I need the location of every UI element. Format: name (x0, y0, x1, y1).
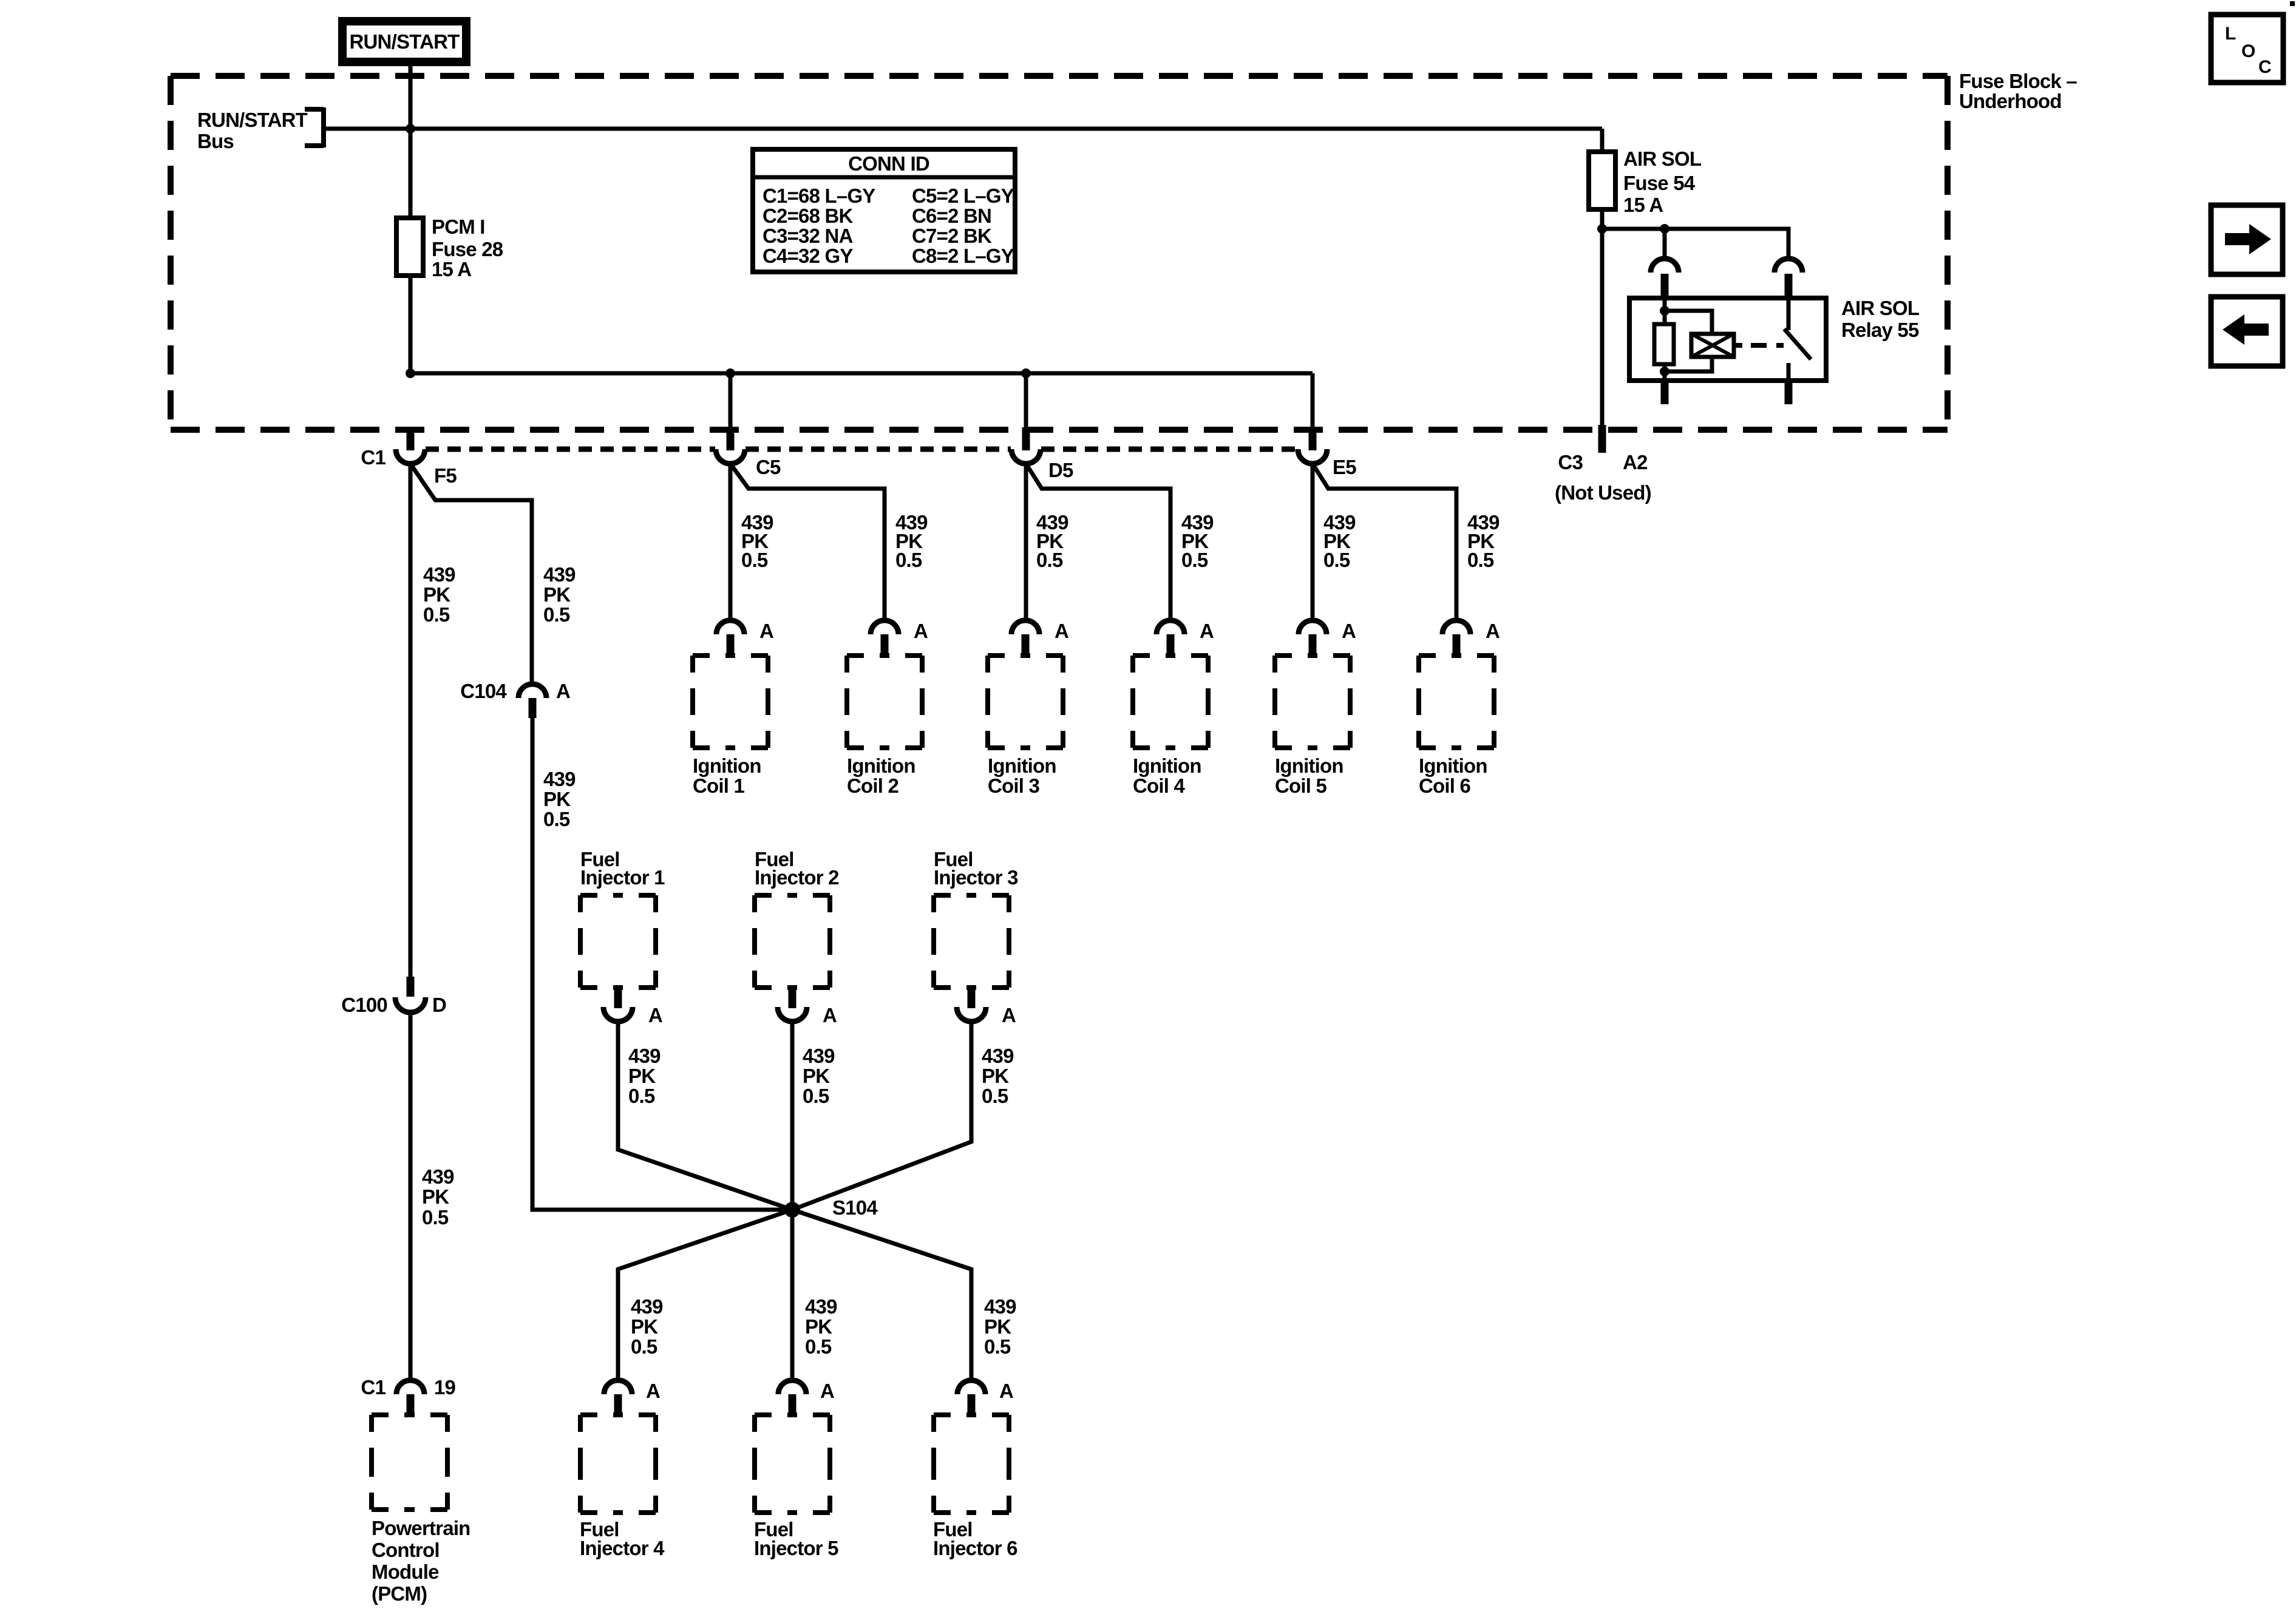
wire RUN/START bus horizontal (324, 127, 1602, 131)
svg-text:Coil 3: Coil 3 (988, 775, 1039, 797)
wire 439 PK 0.5 label (fuel injector 2) (803, 1045, 835, 1107)
connector C100 D (395, 977, 426, 1012)
svg-text:0.5: 0.5 (805, 1335, 832, 1358)
svg-text:Coil 2: Coil 2 (847, 775, 898, 797)
svg-text:Injector 4: Injector 4 (580, 1537, 665, 1559)
junction relay internal bottom (1660, 367, 1669, 376)
svg-text:0.5: 0.5 (982, 1085, 1008, 1107)
label Fuel Injector 5 (754, 1518, 838, 1559)
label C104 pin A (556, 680, 570, 702)
svg-text:A: A (759, 620, 773, 642)
wire 439 PK 0.5 label (C1 lower) (422, 1165, 454, 1229)
wire 439 PK 0.5 label (fuel injector 1) (628, 1045, 661, 1107)
svg-text:A: A (820, 1380, 834, 1402)
svg-text:439: 439 (631, 1295, 663, 1318)
fuel injector 6 box (934, 1415, 1009, 1513)
ignition coil 3 box (988, 656, 1063, 748)
svg-text:A: A (1055, 620, 1068, 642)
label ignition coil 4 pin A (1200, 620, 1214, 642)
label ignition coil 5 pin A (1342, 620, 1356, 642)
svg-text:439: 439 (805, 1295, 837, 1318)
connector D5 (1011, 427, 1041, 464)
module PCM box (372, 1415, 447, 1510)
connector relay pin left (1651, 259, 1679, 298)
svg-text:PK: PK (631, 1315, 658, 1338)
label Ignition Coil 6 (1419, 754, 1487, 797)
svg-text:Injector 1: Injector 1 (580, 866, 665, 889)
wire D5 branch to ignition coil 4 (1026, 464, 1170, 620)
label PCM I Fuse 28 15 A (432, 215, 503, 280)
splice S104 (784, 1202, 800, 1218)
label Fuel Injector 6 (933, 1518, 1017, 1559)
fuel injector 2 box (755, 895, 830, 988)
svg-text:Powertrain: Powertrain (372, 1517, 470, 1539)
junction relay internal top (1660, 306, 1669, 316)
label AIR SOL Relay 55 (1841, 297, 1920, 341)
label fuel injector 5 pin A (820, 1380, 834, 1402)
svg-text:PK: PK (982, 1065, 1009, 1087)
label Fuel Injector 1 (580, 848, 665, 889)
svg-text:439: 439 (803, 1045, 835, 1067)
svg-text:Coil 1: Coil 1 (693, 775, 744, 797)
svg-text:PK: PK (543, 583, 571, 606)
connector C104 A (518, 684, 546, 718)
svg-text:0.5: 0.5 (1323, 549, 1350, 571)
wire E5 to ignition coil 5 (1311, 464, 1315, 620)
wire relay pin left output stub (1661, 383, 1669, 404)
connector fuel injector 5 pin A (778, 1380, 806, 1415)
svg-text:O: O (2241, 41, 2255, 61)
svg-text:D: D (432, 994, 446, 1016)
svg-text:0.5: 0.5 (984, 1335, 1011, 1358)
svg-text:A: A (914, 620, 928, 642)
svg-text:PK: PK (543, 788, 571, 810)
svg-text:C1: C1 (361, 446, 385, 469)
node RUN/START Bus bracket (305, 107, 324, 147)
wire relay coil feed drop (1663, 229, 1667, 259)
label Fuel Injector 4 (580, 1518, 665, 1559)
wire E5 drop (1311, 373, 1315, 432)
wire 439 PK 0.5 label (ignition coil 3) (1036, 511, 1068, 571)
label C100 pin D (432, 994, 446, 1016)
svg-text:0.5: 0.5 (543, 808, 570, 830)
label fuel injector 4 pin A (646, 1380, 660, 1402)
svg-text:AIR SOL: AIR SOL (1623, 147, 1702, 170)
power feed box RUN/START (342, 21, 466, 62)
svg-text:PK: PK (803, 1065, 830, 1087)
connector C5 (716, 427, 745, 464)
svg-text:0.5: 0.5 (628, 1085, 655, 1107)
wire 439 PK 0.5 label (ignition coil 1) (741, 511, 773, 571)
junction RUN/START bus at PCM I fuse (406, 124, 415, 134)
label C1 (connector) (361, 446, 385, 469)
svg-text:AIR SOL: AIR SOL (1841, 297, 1920, 319)
wire 439 PK 0.5 label (ignition coil 4) (1181, 511, 1214, 571)
svg-text:Relay 55: Relay 55 (1841, 319, 1919, 341)
label Ignition Coil 5 (1275, 754, 1343, 797)
svg-text:L: L (2225, 24, 2236, 44)
connector C1 F5 (396, 427, 425, 464)
connector fuel injector 2 pin A (778, 988, 807, 1022)
junction ignition bus C5 (725, 368, 735, 378)
wire 439 PK 0.5 label (C104 lower) (543, 768, 576, 830)
wire ignition feed bus (410, 371, 1313, 376)
fuel injector 1 box (580, 895, 656, 988)
resistor relay internal (1654, 324, 1674, 364)
svg-text:439: 439 (628, 1045, 661, 1067)
connector ignition coil 5 pin A (1299, 620, 1326, 656)
label A2 (1623, 451, 1648, 473)
connector E5 (1298, 427, 1327, 464)
svg-text:C6=2 BN: C6=2 BN (912, 205, 991, 227)
connector fuel injector 6 pin A (957, 1380, 985, 1415)
wire S104 to fuel injector 4 (618, 1210, 792, 1380)
label Ignition Coil 4 (1133, 754, 1201, 797)
svg-text:0.5: 0.5 (1036, 549, 1063, 571)
connector fuel injector 1 pin A (603, 988, 633, 1022)
wire RUN/START feed vertical (409, 62, 413, 129)
ignition coil 6 box (1419, 656, 1494, 748)
svg-text:Ignition: Ignition (988, 754, 1056, 777)
wire C5 drop (729, 373, 733, 432)
label Ignition Coil 3 (988, 754, 1056, 797)
connector relay pin right (1775, 259, 1802, 298)
connector ignition coil 2 pin A (871, 620, 898, 656)
wire relay feed horizontal (1602, 229, 1788, 259)
svg-text:A: A (1002, 1004, 1016, 1026)
connector ignition coil 1 pin A (716, 620, 744, 656)
wire C5 branch to ignition coil 2 (730, 464, 885, 620)
label fuel injector 6 pin A (999, 1380, 1013, 1402)
svg-text:A2: A2 (1623, 451, 1648, 473)
label E5 (connector) (1333, 456, 1356, 478)
wire C1 branch to C104 (410, 464, 532, 684)
svg-text:Ignition: Ignition (1419, 754, 1487, 777)
icon LOC box (2211, 15, 2283, 83)
label ignition coil 6 pin A (1486, 620, 1500, 642)
svg-text:C3: C3 (1558, 451, 1583, 473)
connector ignition coil 6 pin A (1442, 620, 1470, 656)
ignition coil 4 box (1133, 656, 1208, 748)
label Ignition Coil 1 (693, 754, 761, 797)
svg-text:A: A (1200, 620, 1214, 642)
wire D5 drop (1024, 373, 1028, 432)
label (Not Used) (1555, 481, 1651, 504)
wire relay pin right output stub (1785, 383, 1793, 404)
scan artifact corner mark (2290, 1, 2295, 6)
wire 439 PK 0.5 label (fuel injector 6) (984, 1295, 1016, 1358)
svg-text:A: A (823, 1004, 837, 1026)
svg-text:C1=68 L–GY: C1=68 L–GY (763, 185, 875, 207)
svg-text:PK: PK (422, 1185, 449, 1208)
svg-text:Fuse 54: Fuse 54 (1623, 172, 1696, 194)
svg-text:439: 439 (423, 563, 455, 586)
wire relay internal resistor bottom (1663, 364, 1667, 381)
svg-text:439: 439 (543, 768, 576, 790)
wire relay internal pin left (1663, 298, 1667, 324)
ignition coil 1 box (693, 656, 768, 748)
pin C3 A2 connector stub (1598, 425, 1606, 453)
icon arrow previous page (2211, 297, 2283, 366)
svg-text:Injector 5: Injector 5 (754, 1537, 838, 1559)
svg-text:Coil 6: Coil 6 (1419, 775, 1470, 797)
ignition coil 2 box (847, 656, 922, 748)
svg-text:0.5: 0.5 (422, 1206, 449, 1229)
connector PCM C1 pin 19 (396, 1380, 424, 1415)
svg-text:439: 439 (422, 1165, 454, 1188)
harness dotted line (426, 447, 1297, 452)
svg-text:C100: C100 (341, 994, 387, 1016)
svg-text:A: A (1486, 620, 1500, 642)
svg-text:C2=68 BK: C2=68 BK (763, 205, 854, 227)
fuse AIR SOL Fuse 54 (1589, 129, 1615, 428)
fuel injector 4 box (580, 1415, 656, 1513)
svg-text:PK: PK (423, 583, 450, 606)
wire 439 PK 0.5 label (ignition coil 2) (895, 511, 928, 571)
relay AIR SOL Relay 55 box (1629, 298, 1826, 381)
svg-text:A: A (999, 1380, 1013, 1402)
svg-text:(PCM): (PCM) (372, 1582, 427, 1605)
svg-text:Injector 3: Injector 3 (934, 866, 1018, 889)
label C5 (connector) (756, 456, 781, 478)
svg-text:C7=2 BK: C7=2 BK (912, 225, 992, 247)
svg-text:Module: Module (372, 1561, 439, 1583)
wire relay coil loop (1665, 311, 1712, 371)
wire fuel injector 3 to S104 (792, 1022, 971, 1210)
label Ignition Coil 2 (847, 754, 915, 797)
label C3 (1558, 451, 1583, 473)
svg-text:S104: S104 (832, 1196, 878, 1219)
label PCM connector C1 (361, 1376, 385, 1398)
svg-text:Bus: Bus (197, 130, 234, 152)
label ignition coil 2 pin A (914, 620, 928, 642)
label fuel injector 3 pin A (1002, 1004, 1016, 1026)
wire 439 PK 0.5 label (ignition coil 5) (1323, 511, 1356, 571)
connector fuel injector 3 pin A (957, 988, 986, 1022)
wire fuel injector 2 to S104 (790, 1022, 795, 1210)
junction ignition bus D5 (1021, 368, 1031, 378)
junction ignition bus C1 (406, 368, 415, 378)
wire C104 to S104 splice (532, 718, 792, 1210)
svg-text:19: 19 (434, 1376, 456, 1398)
wire S104 to fuel injector 6 (792, 1210, 971, 1380)
svg-text:RUN/START: RUN/START (197, 109, 308, 131)
svg-text:Underhood: Underhood (1959, 90, 2062, 112)
svg-text:Ignition: Ignition (847, 754, 915, 777)
svg-text:0.5: 0.5 (423, 603, 450, 626)
label F5 (434, 464, 457, 487)
connector ignition coil 3 pin A (1011, 620, 1039, 656)
svg-text:D5: D5 (1048, 459, 1073, 481)
wire 439 PK 0.5 label (fuel injector 4) (631, 1295, 663, 1358)
label S104 (832, 1196, 878, 1219)
wire 439 PK 0.5 label (C1 main upper) (423, 563, 455, 626)
fuel injector 5 box (755, 1415, 830, 1513)
svg-text:Coil 4: Coil 4 (1133, 775, 1185, 797)
fuse block Fuse Block Underhood dashed border (171, 76, 1948, 430)
wire S104 to fuel injector 5 (790, 1210, 795, 1380)
wire 439 PK 0.5 label (fuel injector 3) (982, 1045, 1014, 1107)
svg-text:PK: PK (984, 1315, 1011, 1338)
svg-text:A: A (556, 680, 570, 702)
label RUN/START Bus (197, 109, 308, 152)
svg-text:C3=32 NA: C3=32 NA (763, 225, 853, 247)
label Fuel Injector 3 (934, 848, 1018, 889)
svg-text:A: A (648, 1004, 662, 1026)
svg-text:Injector 2: Injector 2 (755, 866, 839, 889)
svg-text:RUN/START: RUN/START (349, 30, 460, 53)
label C104 (460, 680, 507, 702)
label Powertrain Control Module (PCM) (372, 1517, 470, 1605)
wire 439 PK 0.5 label (ignition coil 6) (1467, 511, 1500, 571)
label fuel injector 1 pin A (648, 1004, 662, 1026)
svg-text:0.5: 0.5 (543, 603, 570, 626)
fuse PCM I Fuse 28 (396, 129, 423, 373)
connector ignition coil 4 pin A (1156, 620, 1184, 656)
svg-text:Fuse 28: Fuse 28 (432, 238, 503, 260)
svg-text:A: A (646, 1380, 660, 1402)
wire 439 PK 0.5 label (C104 branch upper) (543, 563, 576, 626)
svg-text:0.5: 0.5 (741, 549, 768, 571)
fuel injector 3 box (934, 895, 1009, 988)
icon arrow next page (2211, 205, 2283, 274)
svg-text:0.5: 0.5 (631, 1335, 657, 1358)
switch relay contacts (1784, 298, 1811, 381)
svg-text:(Not Used): (Not Used) (1555, 481, 1651, 504)
svg-text:0.5: 0.5 (803, 1085, 829, 1107)
label D5 (connector) (1048, 459, 1073, 481)
label ignition coil 3 pin A (1055, 620, 1068, 642)
junction AIR SOL fuse output (1597, 224, 1607, 234)
label ignition coil 1 pin A (759, 620, 773, 642)
svg-text:Ignition: Ignition (1275, 754, 1343, 777)
table CONN ID (753, 149, 1015, 272)
wire 439 PK 0.5 label (fuel injector 5) (805, 1295, 837, 1358)
svg-text:439: 439 (982, 1045, 1014, 1067)
connector fuel injector 4 pin A (604, 1380, 632, 1415)
svg-text:439: 439 (543, 563, 576, 586)
svg-text:C: C (2258, 57, 2271, 77)
svg-text:15 A: 15 A (432, 258, 471, 280)
label fuel injector 2 pin A (823, 1004, 837, 1026)
svg-text:C1: C1 (361, 1376, 385, 1398)
svg-text:CONN ID: CONN ID (848, 152, 929, 175)
junction relay coil feed (1660, 224, 1669, 234)
label Fuse Block Underhood (1959, 70, 2077, 112)
svg-text:E5: E5 (1333, 456, 1356, 478)
wire C1 to C100 (409, 464, 413, 977)
wire E5 branch to ignition coil 6 (1313, 464, 1456, 620)
svg-text:A: A (1342, 620, 1356, 642)
wire relay coil to switch dashed link (1751, 343, 1784, 348)
label C100 (341, 994, 387, 1016)
svg-text:Fuse Block –: Fuse Block – (1959, 70, 2077, 92)
svg-text:C5: C5 (756, 456, 781, 478)
svg-text:Ignition: Ignition (1133, 754, 1201, 777)
wire C100 to PCM (409, 1012, 413, 1380)
svg-text:Ignition: Ignition (693, 754, 761, 777)
svg-text:0.5: 0.5 (895, 549, 922, 571)
coil relay winding (1691, 334, 1742, 357)
ignition coil 5 box (1275, 656, 1350, 748)
svg-text:PK: PK (805, 1315, 832, 1338)
label Fuel Injector 2 (755, 848, 839, 889)
svg-text:PK: PK (628, 1065, 656, 1087)
svg-text:Coil 5: Coil 5 (1275, 775, 1326, 797)
label AIR SOL Fuse 54 15 A (1623, 147, 1702, 216)
svg-text:C104: C104 (460, 680, 507, 702)
svg-text:439: 439 (984, 1295, 1016, 1318)
svg-text:Control: Control (372, 1539, 440, 1561)
svg-text:C4=32 GY: C4=32 GY (763, 245, 853, 267)
wire D5 to ignition coil 3 (1024, 464, 1028, 620)
svg-text:C8=2 L–GY: C8=2 L–GY (912, 245, 1014, 267)
svg-text:15 A: 15 A (1623, 194, 1663, 216)
label PCM pin 19 (434, 1376, 456, 1398)
svg-text:F5: F5 (434, 464, 457, 487)
svg-text:Injector 6: Injector 6 (933, 1537, 1017, 1559)
svg-text:PCM I: PCM I (432, 215, 485, 238)
wire fuel injector 1 to S104 (618, 1022, 792, 1210)
svg-text:0.5: 0.5 (1181, 549, 1208, 571)
svg-text:0.5: 0.5 (1467, 549, 1494, 571)
wire C5 to ignition coil 1 (729, 464, 733, 620)
svg-text:C5=2 L–GY: C5=2 L–GY (912, 185, 1014, 207)
